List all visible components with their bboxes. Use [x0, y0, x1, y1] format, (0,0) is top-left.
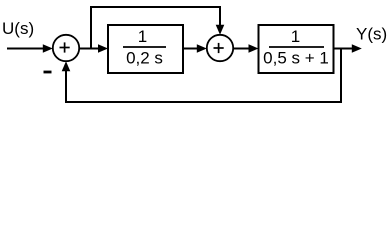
wire S1 to block G1 with branch node	[79, 44, 108, 53]
wire feedback path from output node around bottom to S1	[62, 49, 341, 103]
svg-text:Y(s): Y(s)	[356, 25, 387, 44]
svg-text:0,2 s: 0,2 s	[126, 49, 163, 68]
wire input arrow into summing junction	[7, 44, 53, 53]
summing junction S1	[53, 35, 79, 61]
svg-text:1: 1	[291, 27, 300, 46]
block G2 transfer function 1/(0.5s+1)	[259, 25, 334, 73]
svg-text:U(s): U(s)	[2, 19, 34, 38]
summing junction S2	[207, 35, 233, 61]
minus sign on feedback input of S1	[44, 71, 52, 74]
svg-text:0,5 s + 1: 0,5 s + 1	[263, 49, 329, 68]
svg-text:1: 1	[138, 27, 147, 46]
wire S2 to block G2	[233, 44, 258, 53]
wire G1 to summing junction S2	[183, 44, 207, 53]
wire output arrow from G2	[334, 44, 362, 53]
wire feedforward branch up and across top to S2	[91, 7, 224, 49]
block G1 transfer function 1/0.2s	[108, 25, 183, 73]
